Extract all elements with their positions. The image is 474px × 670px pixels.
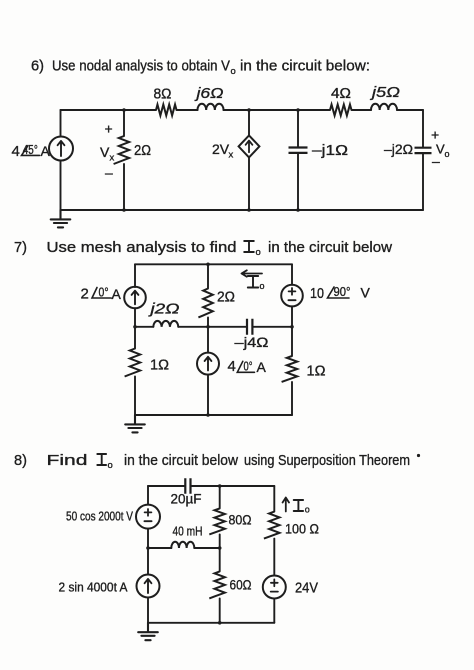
capacitor -j2ohm with Vo	[422, 110, 424, 148]
resistor 1ohm right C7	[291, 327, 293, 356]
resistor R 4ohm	[330, 105, 352, 116]
svg-text:x: x	[229, 150, 234, 161]
svg-text:Use nodal analysis to obtain V: Use nodal analysis to obtain V	[52, 58, 230, 75]
voltage source 10/90 V	[291, 264, 293, 285]
wire bottom C6	[61, 209, 424, 211]
svg-text:Use mesh analysis to find: Use mesh analysis to find	[47, 239, 237, 256]
dependent source 2Vx diamond	[248, 110, 250, 135]
svg-text:1Ω: 1Ω	[307, 364, 326, 380]
resistor 1ohm left C7	[134, 327, 136, 349]
capacitor 20uF	[185, 478, 190, 494]
svg-text:–j4Ω: –j4Ω	[235, 334, 269, 350]
wire between 4ohm and j5ohm	[352, 109, 372, 111]
label Io C8	[294, 500, 303, 511]
svg-text:x: x	[110, 153, 115, 164]
svg-text:2 sin 4000t A: 2 sin 4000t A	[59, 580, 128, 595]
inductor 40mH	[171, 542, 194, 548]
svg-text:60Ω: 60Ω	[230, 577, 252, 593]
wire middle C7	[135, 326, 153, 328]
current source 2/0 A	[134, 264, 136, 287]
svg-text:2Ω: 2Ω	[134, 143, 151, 159]
svg-text:8Ω: 8Ω	[154, 86, 172, 103]
svg-text:2: 2	[81, 286, 89, 303]
svg-text:A: A	[112, 286, 122, 302]
current source 2sin4000t A	[137, 575, 160, 598]
svg-text:in the circuit below: in the circuit below	[268, 239, 392, 256]
voltage source 24V	[263, 576, 286, 599]
wire top C7	[135, 263, 292, 265]
svg-text:o: o	[231, 66, 236, 77]
wire between 8ohm and j6ohm	[177, 109, 198, 111]
inductor j5ohm	[371, 104, 397, 110]
svg-text:Find: Find	[47, 452, 88, 469]
svg-text:–: –	[432, 153, 440, 169]
svg-text:90°: 90°	[334, 284, 351, 299]
ground C6	[51, 210, 71, 227]
svg-text:0°: 0°	[244, 359, 253, 374]
resistor 60ohm	[209, 571, 225, 598]
wire middle C8	[148, 547, 171, 549]
svg-text:A: A	[41, 143, 51, 159]
svg-text:A: A	[257, 359, 267, 375]
label Io C7	[248, 276, 258, 288]
svg-text:j5Ω: j5Ω	[370, 84, 400, 101]
svg-text:20µF: 20µF	[171, 491, 202, 507]
resistor 2ohm with Vx	[123, 110, 125, 136]
svg-text:o: o	[305, 505, 310, 515]
capacitor -j1ohm	[297, 110, 299, 147]
svg-text:2Ω: 2Ω	[217, 290, 235, 306]
svg-text:0°: 0°	[99, 285, 109, 300]
svg-text:1Ω: 1Ω	[150, 358, 169, 374]
svg-text:in the circuit below: in the circuit below	[124, 452, 238, 469]
wire j5ohm to right corner	[397, 109, 423, 111]
resistor 2ohm C7	[207, 264, 209, 288]
inductor j2ohm	[153, 321, 178, 327]
svg-text:–: –	[105, 165, 113, 181]
current source 4/45 A	[60, 110, 62, 137]
svg-text:2V: 2V	[212, 141, 230, 157]
svg-text:7): 7)	[14, 239, 27, 256]
svg-text:using Superposition Theorem: using Superposition Theorem	[244, 452, 410, 469]
svg-text:10: 10	[310, 285, 324, 302]
wire bottom C8	[148, 622, 274, 624]
arrow Io C8	[283, 498, 289, 512]
wire top-left segment	[61, 109, 157, 111]
wire j6ohm to 4ohm	[224, 109, 331, 111]
svg-text:j2Ω: j2Ω	[148, 302, 180, 318]
svg-text:8): 8)	[14, 452, 27, 469]
svg-text:100 Ω: 100 Ω	[285, 521, 319, 537]
current source 4/0 A C7	[207, 327, 209, 353]
svg-text:o: o	[260, 281, 265, 291]
inductor j6ohm	[198, 104, 224, 110]
ground C7	[125, 415, 145, 432]
svg-text:V: V	[100, 144, 110, 160]
svg-text:–j2Ω: –j2Ω	[384, 141, 413, 157]
svg-text:24V: 24V	[295, 581, 318, 597]
svg-text:V: V	[361, 285, 371, 301]
svg-text:o: o	[256, 247, 261, 258]
svg-text:80Ω: 80Ω	[229, 512, 252, 528]
svg-text:o: o	[108, 460, 113, 471]
voltage source 50cos2000t V	[147, 486, 149, 505]
svg-text:+: +	[431, 127, 439, 143]
svg-text:in the circuit below:: in the circuit below:	[240, 58, 370, 75]
resistor 100ohm with Io	[273, 486, 275, 512]
svg-text:40 mH: 40 mH	[173, 524, 203, 539]
svg-text:6): 6)	[31, 58, 44, 75]
svg-text:+: +	[105, 121, 113, 137]
resistor 80ohm	[219, 486, 221, 508]
svg-text:4: 4	[12, 143, 20, 160]
svg-text:4Ω: 4Ω	[331, 85, 351, 102]
ground C8	[138, 623, 158, 640]
wire top C8	[148, 485, 185, 487]
svg-text:–j1Ω: –j1Ω	[312, 143, 348, 159]
capacitor -j4ohm	[247, 319, 252, 335]
svg-text:j6Ω: j6Ω	[194, 85, 223, 102]
svg-text:o: o	[445, 149, 450, 159]
svg-text:4: 4	[228, 358, 236, 375]
resistor R 8ohm	[156, 105, 176, 116]
wire bottom C7	[135, 414, 292, 416]
svg-text:45°: 45°	[23, 142, 38, 157]
svg-text:50 cos 2000t V: 50 cos 2000t V	[66, 509, 133, 524]
arrow Io C7	[242, 270, 263, 276]
